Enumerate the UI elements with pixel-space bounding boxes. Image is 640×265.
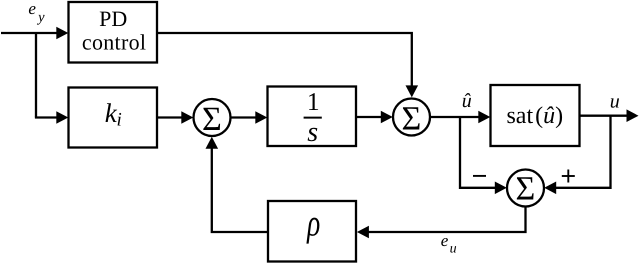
svg-text:u: u [610, 90, 620, 112]
wire input e_y [1, 27, 68, 40]
wire u-hat node down to sum3 minus input [460, 117, 507, 194]
svg-text:sat (û): sat (û) [506, 103, 563, 129]
label minus [473, 175, 486, 177]
wire sum2 to sat block [430, 111, 490, 124]
svg-text:e: e [28, 0, 36, 18]
svg-text:Σ: Σ [202, 101, 222, 138]
block sat [491, 85, 580, 146]
svg-text:u: u [450, 241, 457, 256]
wire branch junction down to k_i [35, 33, 68, 124]
block rho [268, 201, 356, 262]
svg-text:y: y [36, 10, 45, 26]
label e_y [28, 0, 45, 25]
label u output [610, 90, 620, 112]
wire integrator to sum2 [356, 111, 393, 124]
wire sum3 to rho block [357, 207, 526, 239]
wire sat to output u [580, 109, 639, 122]
label e_u [441, 231, 457, 256]
summing junction sum1 [194, 99, 231, 138]
summing junction sum2 [393, 99, 430, 138]
svg-text:û: û [462, 90, 472, 112]
block k_i [69, 88, 158, 148]
wire PD control to sum2 [157, 33, 418, 97]
label plus [562, 170, 575, 183]
svg-text:Σ: Σ [516, 170, 536, 207]
svg-text:ρ: ρ [306, 203, 320, 245]
block PD control [69, 2, 158, 63]
block integrator 1/s [268, 87, 357, 149]
wire k_i to sum1 [157, 111, 193, 124]
svg-text:e: e [441, 231, 449, 250]
summing junction sum3 [507, 170, 544, 208]
svg-text:1: 1 [307, 87, 320, 116]
wire u node down to sum3 plus input [544, 116, 610, 194]
label u-hat [462, 90, 472, 112]
svg-text:s: s [307, 117, 318, 148]
svg-text:Σ: Σ [402, 100, 422, 137]
svg-text:control: control [82, 30, 146, 55]
wire rho to sum1 bottom [206, 137, 269, 232]
wire sum1 to integrator [231, 111, 268, 124]
svg-text:i: i [117, 110, 122, 131]
svg-text:PD: PD [99, 6, 127, 31]
